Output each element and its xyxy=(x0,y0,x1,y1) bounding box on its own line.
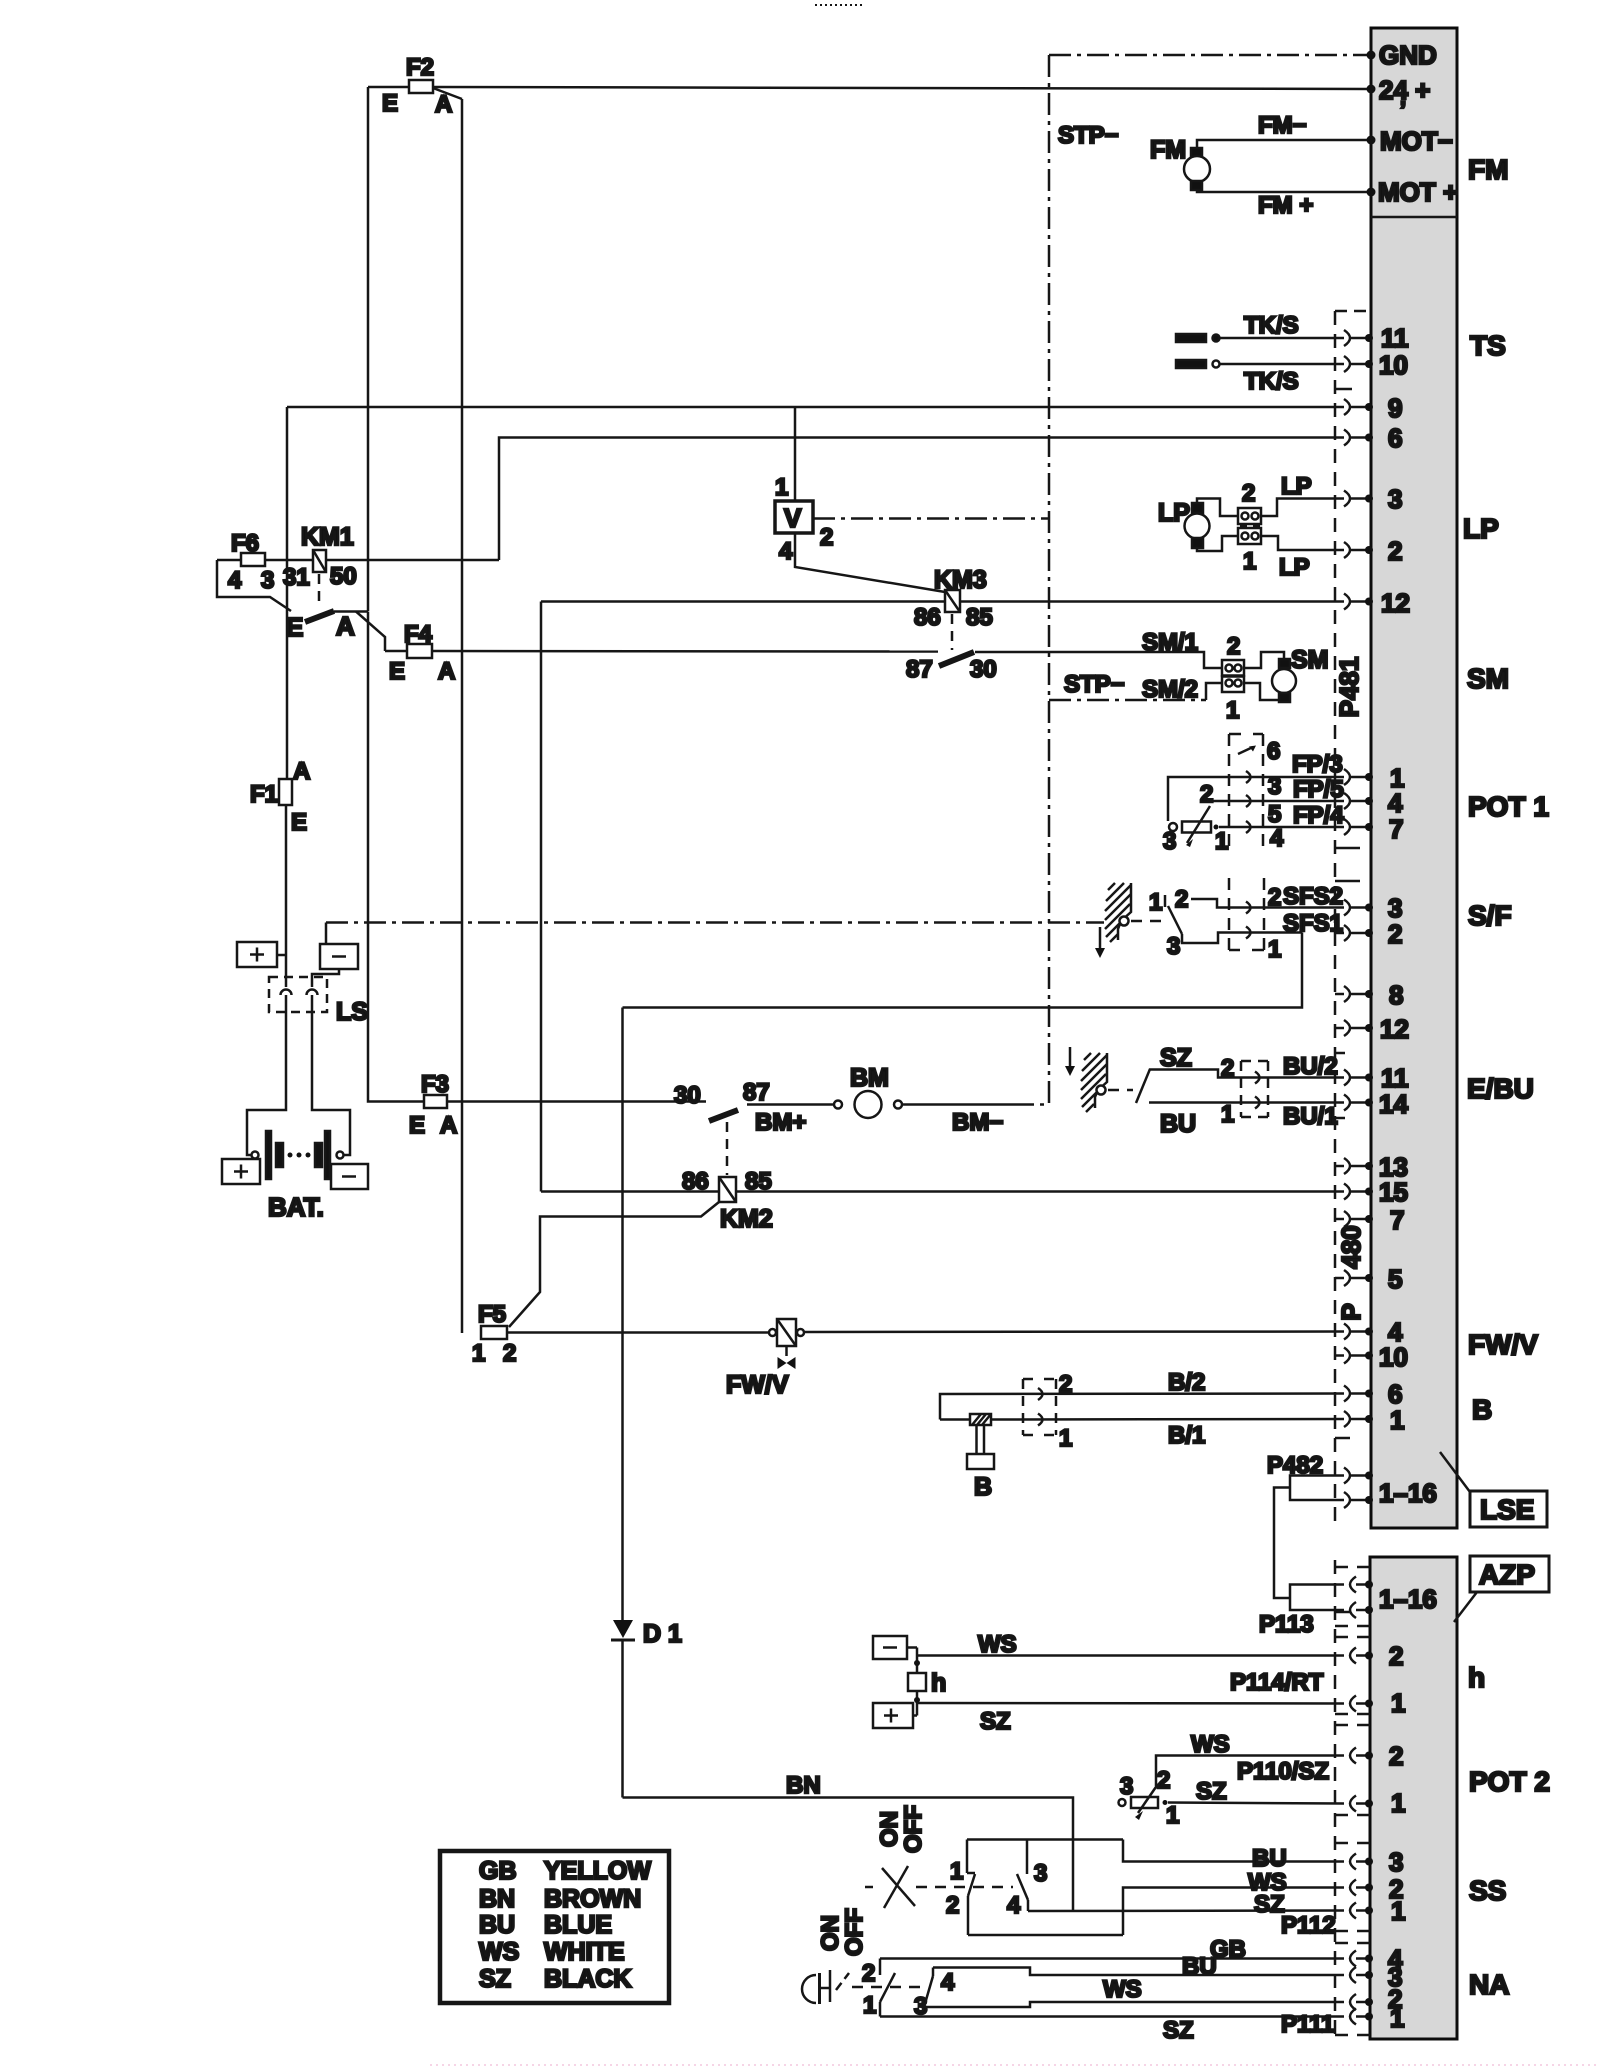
wire KM1-A to F4 diagonal xyxy=(356,612,385,652)
wire LP upper to pin 3 xyxy=(1261,473,1344,516)
svg-text:2: 2 xyxy=(1242,480,1255,507)
section label SM xyxy=(1467,663,1509,694)
mechanical wall E/BU xyxy=(1081,1053,1107,1112)
svg-text:14: 14 xyxy=(1379,1089,1408,1119)
pin 15 xyxy=(1344,1177,1408,1207)
svg-text:87: 87 xyxy=(906,656,933,683)
terminal plus box upper xyxy=(237,942,286,967)
wire FM+ to MOT+ xyxy=(1197,190,1370,219)
fuse F5 xyxy=(472,1301,516,1367)
svg-text:E: E xyxy=(409,1112,425,1139)
svg-text:SM/1: SM/1 xyxy=(1142,629,1198,656)
svg-text:BN: BN xyxy=(786,1772,821,1799)
wire KM2-87 to motor BM xyxy=(747,1103,834,1106)
wire F6/KM1 coil feed (31-50 rail) xyxy=(217,559,499,562)
svg-text:GND: GND xyxy=(1379,40,1437,70)
pin 1 SS xyxy=(1350,1896,1405,1926)
svg-text:1: 1 xyxy=(1390,2003,1404,2033)
svg-text:BU: BU xyxy=(1182,1953,1217,1980)
wire LP motor + to contacts xyxy=(1197,499,1238,517)
mechanical arrow E/BU xyxy=(1065,1047,1075,1076)
pin P113 lower xyxy=(1350,1584,1437,1618)
wire B/2 to pin 6 xyxy=(940,1369,1344,1420)
svg-text:TS: TS xyxy=(1470,330,1506,361)
pin 1 B xyxy=(1344,1405,1404,1435)
wire LP lower to pin 2 xyxy=(1261,536,1344,581)
fuse F3 xyxy=(409,1071,457,1139)
label SM/2 xyxy=(1142,676,1198,703)
svg-text:1: 1 xyxy=(863,1992,876,2019)
svg-text:P112: P112 xyxy=(1281,1912,1336,1939)
wire pin 12 net (KM3 contact rail) xyxy=(541,600,1344,603)
section label B xyxy=(1472,1394,1492,1425)
svg-text:STP−: STP− xyxy=(1058,122,1119,149)
wire WS wiper to POT2 pin 2 xyxy=(1156,1731,1344,1786)
label P481 vertical xyxy=(1334,657,1364,718)
wire SFS1 contact to safety loop xyxy=(1182,910,1343,963)
switch NA contacts xyxy=(862,1959,955,2021)
svg-text:1: 1 xyxy=(1243,548,1256,575)
terminal MOT+ xyxy=(1367,177,1459,207)
pin 4 POT1 xyxy=(1344,788,1403,818)
pin 2 NA xyxy=(1350,1984,1402,2014)
scan artifact pink dotted bottom xyxy=(430,2064,1600,2066)
svg-text:87: 87 xyxy=(743,1079,770,1106)
wire V terminal 2 dash-dot to STP vertical xyxy=(813,517,1049,520)
wire FW/V to pin 4 xyxy=(804,1330,1344,1333)
fuse F2 xyxy=(382,54,452,118)
svg-text:P111: P111 xyxy=(1281,2011,1334,2038)
svg-text:3: 3 xyxy=(1120,1773,1133,1800)
svg-text:2: 2 xyxy=(1059,1371,1072,1398)
svg-text:3: 3 xyxy=(1163,828,1176,855)
svg-text:A: A xyxy=(440,1112,457,1139)
potentiometer POT2 xyxy=(1119,1767,1180,1829)
svg-text:LSE: LSE xyxy=(1480,1494,1534,1525)
potentiometer FP (POT1) xyxy=(1163,781,1228,855)
wire NA BU to pin 3 xyxy=(933,1953,1344,1980)
leader line AZP xyxy=(1454,1592,1477,1622)
sensor TK/S lower xyxy=(1176,360,1299,395)
wire SM/2 dash-dot from STP vertical xyxy=(1049,699,1206,702)
terminal 24+ xyxy=(1367,75,1431,122)
svg-text:LP: LP xyxy=(1281,473,1312,500)
svg-text:2: 2 xyxy=(862,1960,875,1987)
svg-text:480: 480 xyxy=(1336,1225,1366,1268)
svg-text:SZ: SZ xyxy=(1196,1778,1227,1805)
scan artifact dotted mark top xyxy=(815,4,862,6)
bracket arcs B xyxy=(1038,1388,1043,1426)
connector edge stubs AZP spare pins xyxy=(1357,1567,1370,2035)
svg-text:86: 86 xyxy=(914,604,941,631)
svg-text:KM2: KM2 xyxy=(720,1205,773,1233)
svg-text:LP: LP xyxy=(1279,554,1310,581)
legend color code box xyxy=(440,1851,669,2003)
KM2 coil-contact dashed link xyxy=(726,1122,729,1175)
roller E/BU xyxy=(1097,1086,1106,1095)
svg-text:BU: BU xyxy=(1252,1845,1287,1872)
section label E/BU xyxy=(1467,1073,1534,1104)
wire KM2 coil 86 diagonal branch to F5 xyxy=(509,1202,719,1327)
svg-text:BAT.: BAT. xyxy=(268,1192,324,1222)
wire F3 to KM2 30 contact xyxy=(447,1100,706,1103)
svg-text:BLUE: BLUE xyxy=(544,1911,612,1939)
svg-text:2: 2 xyxy=(1227,633,1240,660)
svg-text:V: V xyxy=(784,503,802,533)
svg-text:BLACK: BLACK xyxy=(544,1965,632,1993)
pin 1 POT1 xyxy=(1344,763,1404,793)
svg-text:POT 1: POT 1 xyxy=(1468,791,1549,822)
svg-text:MOT−: MOT− xyxy=(1380,126,1453,156)
svg-text:OFF: OFF xyxy=(841,1908,868,1956)
resistor h xyxy=(907,1648,946,1716)
svg-text:B: B xyxy=(1472,1394,1492,1425)
svg-text:E: E xyxy=(382,90,398,117)
svg-text:6: 6 xyxy=(1267,738,1280,765)
wire KM3-86 feed vertical (pin12 rail to KM2 rail) xyxy=(540,602,543,1192)
svg-text:SZ: SZ xyxy=(980,1708,1011,1735)
svg-text:2: 2 xyxy=(1157,1767,1170,1794)
svg-text:9: 9 xyxy=(1388,393,1402,423)
wire SZ to POT2 pin 1 xyxy=(1168,1778,1344,1805)
switch E/BU blade xyxy=(1136,1069,1150,1103)
svg-text:SZ: SZ xyxy=(1163,2017,1194,2044)
svg-text:1: 1 xyxy=(1390,1405,1404,1435)
motor LP xyxy=(1158,499,1210,548)
svg-text:2: 2 xyxy=(1175,886,1188,913)
svg-text:WS: WS xyxy=(978,1631,1017,1658)
section label POT 1 xyxy=(1468,791,1549,822)
svg-text:NA: NA xyxy=(1469,1969,1509,2000)
wire F2-E to 24+ pin (net 24+) xyxy=(368,87,1370,89)
wire KM1-A branch down to F3 rail xyxy=(368,612,424,1102)
svg-text:1: 1 xyxy=(472,1340,485,1367)
box AZP xyxy=(1470,1556,1549,1592)
wire SM contact to motor - xyxy=(1244,683,1281,700)
label P113 xyxy=(1259,1611,1314,1638)
sensor TK/S upper xyxy=(1176,312,1299,342)
pin 3 S/F xyxy=(1344,893,1402,923)
pin 11 TS xyxy=(1344,323,1409,353)
connector bracket S/F dashed xyxy=(1229,878,1264,950)
svg-text:FM: FM xyxy=(1150,136,1186,164)
wire SS BU to pin 3 xyxy=(1123,1840,1344,1873)
section label h xyxy=(1468,1662,1485,1693)
svg-text:15: 15 xyxy=(1379,1177,1408,1207)
wire LP motor - to contacts xyxy=(1197,536,1238,551)
wire B/1 to pin 1 xyxy=(940,1419,1344,1452)
wire SM/2 to contacts xyxy=(1206,683,1222,700)
pin 6 xyxy=(1344,423,1402,453)
svg-text:B/2: B/2 xyxy=(1168,1369,1205,1396)
terminal GND xyxy=(1367,40,1437,70)
svg-text:A: A xyxy=(336,611,355,641)
svg-text:12: 12 xyxy=(1380,1014,1409,1044)
relay KM3 xyxy=(914,566,993,631)
svg-text:E: E xyxy=(389,658,405,685)
pin 2 SS xyxy=(1350,1874,1403,1904)
svg-text:2: 2 xyxy=(1221,1055,1234,1082)
svg-text:8: 8 xyxy=(1389,980,1403,1010)
svg-text:2: 2 xyxy=(1389,1641,1403,1671)
svg-text:BU: BU xyxy=(1160,1110,1196,1138)
svg-text:30: 30 xyxy=(674,1082,701,1109)
switch SS contacts box xyxy=(946,1840,1123,1936)
svg-text:LP: LP xyxy=(1463,513,1499,544)
svg-text:BM+: BM+ xyxy=(755,1109,806,1136)
svg-text:BROWN: BROWN xyxy=(544,1885,641,1913)
svg-text:E: E xyxy=(291,809,307,836)
section label TS xyxy=(1470,330,1506,361)
wire SS SZ to pin 1 xyxy=(1028,1891,1344,1939)
svg-text:KM1: KM1 xyxy=(301,523,354,551)
wire SZ contact to pin 11 xyxy=(1149,1044,1344,1082)
wire F2 E-side vertical to KM1 A xyxy=(367,87,370,611)
svg-text:WS: WS xyxy=(479,1938,519,1966)
fuse F4 xyxy=(389,621,455,685)
terminal minus box lower xyxy=(331,1164,368,1189)
pin 1 NA xyxy=(1350,2003,1404,2033)
motor FM xyxy=(1150,136,1210,190)
valve unit V xyxy=(775,474,833,565)
section label S/F xyxy=(1468,900,1512,931)
svg-text:30: 30 xyxy=(970,656,997,683)
wire V terminal 1 to pin9 rail xyxy=(794,407,797,501)
svg-text:P113: P113 xyxy=(1259,1611,1314,1638)
label SM/1 xyxy=(1142,629,1198,656)
bracket corner marks xyxy=(1335,311,1367,2035)
svg-text:1: 1 xyxy=(1221,1101,1234,1128)
contact KM3 87/30 blade xyxy=(906,652,997,683)
motor BM xyxy=(755,1064,1003,1136)
wire FM- to MOT- xyxy=(1197,112,1370,148)
svg-text:P: P xyxy=(1336,1303,1366,1320)
svg-text:1: 1 xyxy=(950,1858,963,1885)
svg-text:F5: F5 xyxy=(478,1301,506,1328)
svg-text:1: 1 xyxy=(1166,1802,1179,1829)
wire pin 9 net (from E node) xyxy=(287,406,1344,409)
wire BN brown feed (safety loop to SS) xyxy=(623,1008,1074,1912)
wire TK/S lower to pin 10 xyxy=(1220,363,1344,366)
svg-text:2: 2 xyxy=(946,1892,959,1919)
wire KM1 A contact rail xyxy=(334,610,368,613)
wire LS key dash-dot actuation line to S/F xyxy=(326,923,1104,945)
svg-text:3: 3 xyxy=(1268,773,1281,800)
svg-text:1: 1 xyxy=(1391,1896,1405,1926)
pin 2 S/F xyxy=(1344,919,1402,949)
svg-text:FW/V: FW/V xyxy=(1468,1329,1538,1360)
svg-text:E: E xyxy=(286,612,303,642)
NA actuation dashes xyxy=(852,1986,921,1989)
valve FW/V xyxy=(726,1319,804,1399)
wire KM1-50 rail up to pin 6 net xyxy=(499,438,1344,561)
svg-text:12: 12 xyxy=(1381,588,1410,618)
pin 12 stub S/F xyxy=(1335,1014,1409,1044)
sensor B pressure transducer xyxy=(967,1414,994,1501)
svg-text:2: 2 xyxy=(1268,884,1281,911)
svg-text:3: 3 xyxy=(1167,933,1180,960)
wire SM contact to motor + xyxy=(1244,652,1284,668)
contact KM2 30/87 blade xyxy=(674,1079,770,1121)
wire NA GB to pin 4 xyxy=(880,1936,1344,1963)
svg-text:5: 5 xyxy=(1268,801,1281,828)
svg-text:4: 4 xyxy=(941,1969,955,1996)
svg-text:FM +: FM + xyxy=(1258,192,1313,219)
svg-text:GB: GB xyxy=(479,1857,517,1885)
connector main box P480/P481 gray body xyxy=(1371,28,1457,1528)
pin P482 lower xyxy=(1344,1478,1437,1508)
svg-text:ON: ON xyxy=(817,1915,844,1951)
svg-text:h: h xyxy=(931,1669,946,1697)
wire SFS2 to pin 3 xyxy=(1191,883,1344,911)
svg-text:WHITE: WHITE xyxy=(544,1938,625,1966)
svg-text:P481: P481 xyxy=(1334,657,1364,718)
svg-text:1: 1 xyxy=(1226,697,1239,724)
pin 3 NA xyxy=(1350,1962,1402,1992)
svg-text:2: 2 xyxy=(503,1340,516,1367)
svg-text:11: 11 xyxy=(1381,323,1409,353)
svg-text:2: 2 xyxy=(1388,919,1402,949)
svg-text:SM: SM xyxy=(1291,646,1329,674)
svg-text:2: 2 xyxy=(1200,781,1213,808)
wire NA SZ to pin 1 xyxy=(880,2011,1344,2044)
svg-text:B: B xyxy=(974,1473,992,1501)
section label SS xyxy=(1469,1875,1506,1906)
svg-text:1: 1 xyxy=(775,474,788,501)
section label FW/V xyxy=(1468,1329,1538,1360)
svg-text:B/1: B/1 xyxy=(1168,1422,1205,1449)
switch NA lamp xyxy=(802,1908,868,2004)
wire F4 rail to KM3 87 contact xyxy=(385,650,938,653)
pin 6 spare arrow in POT1 bracket xyxy=(1238,738,1284,852)
svg-text:BU/2: BU/2 xyxy=(1283,1053,1338,1080)
roller S/F xyxy=(1120,917,1129,926)
svg-text:F1: F1 xyxy=(250,781,278,808)
wire BU contact to pin 14 xyxy=(1149,1101,1344,1138)
svg-text:P110/SZ: P110/SZ xyxy=(1237,1758,1329,1785)
svg-text:SS: SS xyxy=(1469,1875,1506,1906)
svg-text:1: 1 xyxy=(1059,1425,1072,1452)
E/BU switch dashes xyxy=(1108,1089,1133,1092)
KM1 coil-contact dashed link xyxy=(318,574,321,606)
svg-text:FP/4: FP/4 xyxy=(1293,802,1344,829)
pin 2 POT2 xyxy=(1350,1741,1403,1771)
svg-text:2: 2 xyxy=(820,524,833,551)
connector bracket POT1 dashed xyxy=(1229,734,1263,850)
pin 7 stub xyxy=(1335,1205,1404,1235)
svg-text:BU: BU xyxy=(479,1911,515,1939)
svg-text:MOT +: MOT + xyxy=(1378,177,1458,207)
svg-text:BM−: BM− xyxy=(952,1109,1003,1136)
pin 4 NA xyxy=(1350,1944,1403,1974)
svg-text:A: A xyxy=(438,658,455,685)
relay KM1 xyxy=(283,523,357,591)
pin 3 LP xyxy=(1344,484,1402,514)
terminal minus box h xyxy=(873,1636,907,1659)
bracket arcs POT1 xyxy=(1246,771,1251,833)
diode D1 xyxy=(611,1620,682,1648)
svg-text:3: 3 xyxy=(261,567,274,594)
svg-text:D 1: D 1 xyxy=(643,1620,682,1648)
svg-text:4: 4 xyxy=(1270,825,1284,852)
pin 7 POT1 xyxy=(1344,814,1403,844)
wire FP/4 terminal-1 to pin 7 xyxy=(1219,802,1344,829)
terminal plus box h xyxy=(873,1703,913,1728)
svg-text:4: 4 xyxy=(1007,1892,1021,1919)
svg-text:FW/V: FW/V xyxy=(726,1371,789,1399)
svg-text:’: ’ xyxy=(1400,97,1406,122)
label P480 vertical xyxy=(1336,1225,1366,1320)
svg-text:1–16: 1–16 xyxy=(1379,1478,1437,1508)
svg-text:WS: WS xyxy=(1191,1731,1230,1758)
pin 4 FW/V xyxy=(1344,1317,1403,1347)
svg-text:2: 2 xyxy=(1389,1741,1403,1771)
bracket arcs E/BU xyxy=(1255,1072,1260,1109)
pin P113 upper xyxy=(1350,1577,1373,1593)
svg-text:F2: F2 xyxy=(406,54,434,81)
wire SZ to h pin 1 xyxy=(917,1669,1344,1735)
svg-text:SZ: SZ xyxy=(1160,1044,1192,1072)
svg-text:WS: WS xyxy=(1103,1976,1142,2003)
wire FP/3 terminal-3 to pin 1 xyxy=(1168,751,1344,821)
pin 14 E/BU xyxy=(1344,1089,1408,1119)
svg-text:ON: ON xyxy=(876,1811,903,1847)
svg-text:7: 7 xyxy=(1390,1205,1404,1235)
svg-text:50: 50 xyxy=(330,563,357,590)
fuse F6 xyxy=(228,530,274,594)
svg-text:1: 1 xyxy=(1215,828,1228,855)
pin 10 TS xyxy=(1344,350,1408,380)
wire GND dash-dot (STP- net) xyxy=(1049,55,1368,1104)
switch SS key symbol xyxy=(865,1805,927,1908)
pin 13 stub xyxy=(1335,1152,1408,1182)
section label FM xyxy=(1468,154,1508,185)
wire F6 4-side bracket down to E node xyxy=(217,560,291,611)
connector bracket B dashed xyxy=(1023,1379,1056,1435)
connector bracket dashed line P481/P480 xyxy=(1334,311,1337,2038)
svg-text:85: 85 xyxy=(966,604,993,631)
svg-text:10: 10 xyxy=(1379,350,1408,380)
relay KM2 xyxy=(682,1168,773,1233)
svg-text:SM/2: SM/2 xyxy=(1142,676,1198,703)
wire safety loop down-left (to SS switch feed) xyxy=(623,933,1303,1008)
svg-text:STP−: STP− xyxy=(1064,671,1125,698)
svg-text:7: 7 xyxy=(1389,814,1403,844)
motor SM xyxy=(1272,646,1329,702)
connector LS xyxy=(269,977,368,1026)
svg-text:1: 1 xyxy=(1149,889,1162,916)
connector AZP gray body xyxy=(1370,1557,1457,2039)
connector contacts LP pair xyxy=(1238,480,1261,575)
mechanical wall S/F xyxy=(1105,883,1131,942)
section label POT 2 xyxy=(1469,1766,1550,1797)
wire pin 15 net (KM2 coil rail) xyxy=(541,1190,1344,1193)
SS actuation dashes xyxy=(916,1886,1013,1889)
svg-text:BN: BN xyxy=(479,1885,515,1913)
pin P482 upper xyxy=(1344,1468,1373,1484)
fuse F1 xyxy=(250,758,310,836)
terminal MOT- xyxy=(1367,126,1453,156)
label P482 xyxy=(1267,1452,1323,1479)
connector bracket E/BU dashed xyxy=(1241,1061,1268,1117)
svg-text:2: 2 xyxy=(1388,536,1402,566)
svg-text:3: 3 xyxy=(1388,484,1402,514)
wire F1 to LS plug xyxy=(285,805,288,987)
svg-text:P114/RT: P114/RT xyxy=(1230,1669,1324,1696)
label STP- mid xyxy=(1064,671,1125,698)
KM3 coil-contact dashed link xyxy=(951,614,954,650)
svg-text:A: A xyxy=(293,758,310,785)
